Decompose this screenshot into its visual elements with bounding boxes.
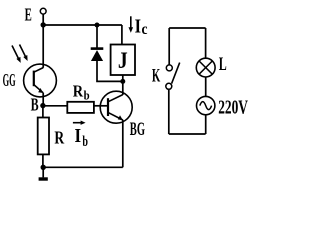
label Rb: [73, 81, 90, 102]
resistor R (box): [38, 118, 49, 155]
wire B down to R: [42, 106, 44, 118]
junction dot E: [41, 22, 46, 27]
wire J bottom stub: [122, 75, 124, 81]
wire terminal to junction: [42, 14, 44, 25]
wire GG emitter to node B: [42, 93, 44, 106]
current arrow Ib: [73, 121, 86, 125]
wire diode bottom: [97, 61, 123, 81]
svg-text:R: R: [54, 128, 65, 148]
wire right loop bottom: [169, 133, 206, 135]
svg-text:b: b: [82, 134, 88, 150]
junction dot below J: [120, 79, 125, 84]
wire down to relay J: [121, 25, 123, 45]
wire right loop right upper: [205, 28, 207, 58]
svg-text:220V: 220V: [218, 97, 248, 118]
junction dot bottom: [41, 165, 46, 170]
svg-text:I: I: [135, 15, 142, 37]
ground bar: [39, 177, 48, 180]
wire source to bottom: [205, 115, 207, 134]
svg-text:B: B: [31, 94, 39, 114]
svg-text:I: I: [75, 125, 82, 147]
wire right loop top: [169, 27, 205, 29]
svg-text:E: E: [25, 5, 32, 25]
wire E junction down to GG: [42, 25, 44, 64]
wire right loop left lower: [168, 89, 170, 134]
junction dot B: [40, 103, 45, 108]
svg-text:K: K: [152, 65, 161, 86]
svg-text:c: c: [142, 21, 148, 38]
junction dot diode top: [95, 23, 100, 28]
svg-text:b: b: [84, 88, 90, 103]
svg-text:BG: BG: [130, 120, 145, 140]
wire B to Rb: [43, 105, 67, 107]
wire top rail: [43, 24, 122, 26]
resistor Rb (box): [67, 102, 94, 113]
svg-text:GG: GG: [3, 70, 16, 90]
lamp L: [196, 58, 215, 77]
transistor BG: [100, 91, 132, 123]
wire lamp to source: [205, 77, 207, 97]
wire right loop left upper: [168, 28, 170, 65]
current arrow Ic: [129, 16, 134, 33]
phototransistor GG: [24, 64, 57, 97]
light arrows into GG: [12, 45, 28, 63]
switch K: [166, 63, 180, 90]
diode D (flyback): [91, 49, 104, 61]
wire to BG collector: [122, 81, 124, 95]
wire BG emitter down: [122, 120, 124, 168]
label Ib: [75, 125, 89, 150]
wire to ground: [42, 167, 44, 177]
AC source 220V: [197, 96, 215, 114]
relay coil J (box): [111, 45, 135, 76]
wire bottom rail: [43, 166, 123, 168]
wire junction to diode: [96, 25, 98, 49]
terminal E: [40, 8, 46, 14]
wire R bottom to rail: [42, 154, 44, 167]
label Ic: [135, 15, 148, 37]
svg-text:R: R: [73, 81, 84, 100]
wire Rb to BG base: [94, 105, 108, 107]
svg-text:L: L: [219, 54, 227, 75]
svg-text:J: J: [118, 48, 128, 73]
